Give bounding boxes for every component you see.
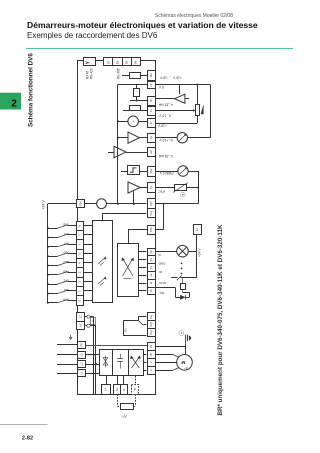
- svg-text:EXT: EXT: [150, 201, 153, 206]
- svg-text:O2: O2: [149, 73, 153, 77]
- svg-text:FWD: FWD: [63, 269, 69, 273]
- contact stud 13: [87, 315, 90, 318]
- svg-text:BR* uniquement pour DV6-340-07: BR* uniquement pour DV6-340-075, DV6-340…: [218, 224, 224, 416]
- terminal A1 analog output 1: [148, 134, 156, 143]
- terminal I2 current setpoint input: [148, 97, 156, 106]
- terminal K +10V potentiometer supply: [148, 119, 156, 128]
- svg-text:L+: L+: [104, 387, 108, 390]
- resistor R1 reference output: [122, 75, 129, 77]
- diode V1: [180, 295, 185, 300]
- svg-text:+10 V … -10 V: +10 V … -10 V: [159, 75, 182, 79]
- control logic block: [118, 244, 139, 297]
- svg-text:DF1: DF1: [63, 288, 69, 292]
- svg-text:03: 03: [125, 61, 129, 65]
- thyristor symbol: [105, 356, 107, 368]
- switch and terminal input JOG: [77, 250, 84, 259]
- phase control symbol: [123, 259, 133, 276]
- switch and terminal input FWD: [77, 268, 84, 278]
- connector mark on PE: [179, 331, 184, 336]
- wire pot wiper: [155, 110, 193, 112]
- terminal PLC 24V: [148, 209, 156, 218]
- switch and terminal input DF2: [77, 278, 84, 287]
- terminal B dashed: [135, 376, 137, 384]
- wire to signal lamp: [155, 251, 176, 253]
- svg-text:01: 01: [106, 61, 110, 65]
- svg-text:0...+10 V: 0...+10 V: [159, 138, 173, 142]
- meter M1: [155, 137, 177, 139]
- terminal X2 24V ext: [148, 199, 156, 209]
- potentiometer R4: [197, 85, 199, 105]
- svg-text:PW: PW: [149, 168, 153, 173]
- meter M2: [155, 171, 178, 173]
- terminal L3: [78, 352, 86, 359]
- svg-text:Th: Th: [149, 185, 153, 189]
- relay output terminal 13: [77, 313, 85, 322]
- svg-text:RST: RST: [63, 232, 69, 236]
- amplifier U2 current output: [108, 152, 114, 154]
- svg-text:4...25 mA: 4...25 mA: [158, 102, 173, 106]
- relay changeover contact K1: [138, 316, 146, 318]
- svg-text:A1: A1: [149, 136, 153, 140]
- wires mains to power block: [86, 354, 100, 356]
- svg-text:Dr: Dr: [159, 270, 162, 274]
- svg-text:Schéma fonctionnel DV6: Schéma fonctionnel DV6: [28, 53, 35, 127]
- svg-text:0 V: 0 V: [158, 85, 164, 89]
- motor M 3-phase: [177, 355, 193, 371]
- switch and terminal input REV: [77, 259, 84, 268]
- svg-text:G: G: [78, 299, 82, 301]
- svg-text:REV: REV: [63, 260, 69, 264]
- svg-text:2-82: 2-82: [22, 436, 33, 442]
- svg-text:M: M: [181, 360, 185, 365]
- svg-text:24G: 24G: [150, 227, 153, 232]
- footer rule: [0, 424, 48, 426]
- wire X2 to meters return: [155, 203, 198, 205]
- resistor R2 vertical: [136, 85, 138, 89]
- wire U to motor: [155, 370, 173, 372]
- svg-text:PE: PE: [79, 343, 83, 347]
- svg-text:4...25 mA: 4...25 mA: [158, 154, 173, 158]
- terminal 0V: [148, 82, 156, 89]
- input isolation block: [93, 221, 113, 303]
- terminal R-: [123, 376, 125, 384]
- svg-text:PE: PE: [150, 344, 153, 348]
- main device enclosure DV6: [78, 61, 156, 395]
- svg-text:+24 V: +24 V: [41, 200, 45, 210]
- svg-text:R+: R+: [115, 387, 119, 391]
- terminal PE mains: [78, 342, 86, 349]
- power block divider 2: [128, 350, 130, 376]
- svg-text:I1: I1: [149, 109, 153, 112]
- supply circle: [84, 203, 96, 205]
- svg-text:V: V: [149, 361, 153, 363]
- svg-text:R-: R-: [122, 388, 126, 391]
- power block divider 1: [112, 350, 114, 376]
- 24V source box: [194, 225, 202, 235]
- terminal PWM output: [148, 167, 156, 177]
- wire PLC to logic: [102, 213, 146, 215]
- connector mark on thermistor: [181, 192, 186, 197]
- resistor R3: [123, 110, 129, 112]
- switch and terminal input RFR: [77, 296, 84, 306]
- thermistor RT1: [155, 187, 175, 189]
- svg-text:Schémas électriques Moeller 02: Schémas électriques Moeller 02/08: [155, 13, 233, 19]
- svg-text:Démarreurs-moteur électronique: Démarreurs-moteur électroniques et varia…: [27, 20, 258, 30]
- connector X1 strip: [104, 58, 141, 66]
- terminal W: [148, 351, 156, 359]
- switch and terminal input RST: [77, 231, 84, 240]
- opto symbol 1: [98, 258, 105, 264]
- svg-text:EXT: EXT: [63, 241, 69, 245]
- braking resistor BR* dashed wiring: [117, 394, 119, 406]
- inverter symbol: [132, 357, 140, 368]
- svg-text:0V: 0V: [150, 83, 153, 86]
- PE through wire: [86, 345, 148, 347]
- switch and terminal input EXT: [77, 240, 84, 250]
- terminal PE motor side: [148, 343, 156, 351]
- svg-text:GND: GND: [63, 223, 69, 227]
- svg-text:+: +: [132, 119, 134, 123]
- relay contact S10: [171, 277, 177, 279]
- chapter tab 2: [0, 93, 21, 110]
- terminal I1 voltage setpoint input: [148, 107, 156, 116]
- +24V drop wire: [196, 251, 198, 278]
- svg-text:Exemples de raccordement des D: Exemples de raccordement des DV6: [27, 31, 158, 40]
- wires logic to status terminals: [138, 251, 146, 253]
- terminal L+: [106, 376, 108, 384]
- svg-text:B: B: [133, 388, 137, 390]
- terminal V: [148, 359, 156, 367]
- digital status terminals 15..10: [148, 249, 156, 256]
- power block enclosure: [100, 350, 144, 376]
- meter M1 return wire: [210, 85, 212, 138]
- stubs to motor terminals: [143, 354, 146, 356]
- svg-text:K12: K12: [151, 330, 153, 335]
- wire 24G to logic: [128, 229, 147, 231]
- terminal L2: [78, 361, 86, 368]
- keypad connector Y: [84, 58, 96, 66]
- internal 0V rail: [118, 84, 147, 86]
- switch and terminal input DF1: [77, 287, 84, 296]
- svg-text:2: 2: [11, 98, 17, 109]
- svg-text:th: th: [158, 253, 161, 257]
- relay terminal K12: [148, 329, 156, 337]
- signal lamp H1: [177, 245, 189, 257]
- svg-text:+24 V: +24 V: [198, 247, 202, 257]
- DC link capacitor C1: [120, 354, 122, 359]
- svg-text:K14: K14: [151, 322, 153, 327]
- earth electrode PE: [185, 334, 187, 343]
- contact designator box: [91, 318, 96, 325]
- svg-text:A2: A2: [149, 150, 153, 154]
- internal bus: [117, 85, 119, 205]
- svg-text:RUN: RUN: [159, 281, 166, 285]
- ellipsis further outputs: [181, 263, 183, 265]
- wire X2 drop: [163, 204, 165, 230]
- svg-text:K: K: [149, 122, 153, 124]
- terminal A2 analog output 2: [148, 148, 156, 157]
- amplifier U1: [118, 137, 128, 139]
- svg-text:3~: 3~: [184, 366, 188, 370]
- PWM shaper block: [128, 166, 140, 175]
- svg-text:04: 04: [134, 61, 138, 65]
- earth mark on PE line: [70, 335, 72, 338]
- terminal 24G: [148, 226, 156, 235]
- svg-text:GND: GND: [158, 262, 166, 266]
- wire PE to earth: [155, 346, 186, 348]
- svg-text:02: 02: [115, 61, 119, 65]
- relay terminal K11: [148, 313, 156, 321]
- svg-text:JOG: JOG: [63, 251, 69, 255]
- wire +24V feed: [48, 203, 77, 205]
- braking resistor BR*: [121, 404, 134, 410]
- wire W to motor: [155, 354, 173, 356]
- svg-text:DF2: DF2: [63, 279, 69, 283]
- svg-text:RS 485: RS 485: [117, 68, 121, 79]
- relay terminal K14: [148, 321, 156, 329]
- +24V rail: [47, 204, 49, 303]
- op-amp U4 external setpoint converter: [155, 98, 175, 100]
- meter M2 return wire: [188, 171, 198, 173]
- wire V to motor: [155, 362, 177, 364]
- opto symbol 2: [98, 278, 105, 284]
- svg-text:K1: K1: [124, 328, 128, 332]
- svg-text:I2: I2: [149, 99, 153, 102]
- terminal Th thermistor: [148, 183, 156, 193]
- summing circle: [118, 121, 128, 123]
- bypass feed wires down: [90, 316, 94, 318]
- svg-text:RS 422: RS 422: [90, 68, 94, 79]
- svg-text:PLC: PLC: [150, 210, 153, 215]
- svg-text:0...10 V: 0...10 V: [159, 114, 171, 118]
- svg-text:P24: P24: [80, 201, 83, 206]
- svg-text:TA1: TA1: [159, 291, 165, 295]
- relay output terminal 14: [77, 322, 85, 330]
- relay contact terminals wires: [84, 316, 87, 318]
- wire PE to motor: [185, 346, 187, 355]
- wire TA1 branch: [155, 287, 175, 289]
- contact stud 14: [87, 324, 90, 327]
- terminal AO2 +10V reference: [148, 71, 156, 81]
- svg-text:24: 24: [195, 228, 199, 232]
- svg-text:U: U: [149, 369, 153, 371]
- terminal U: [148, 367, 156, 375]
- switch and terminal input GND: [77, 222, 84, 231]
- terminal R+: [117, 376, 119, 384]
- amplifier U3 thermistor input: [128, 182, 140, 193]
- resistor R5: [181, 284, 186, 290]
- terminal L1: [78, 370, 86, 377]
- svg-text:R*: R*: [121, 413, 127, 419]
- terminal P24: [77, 200, 85, 208]
- svg-text:PTC: PTC: [158, 189, 165, 193]
- green rule under title: [26, 48, 293, 50]
- svg-text:RFR: RFR: [63, 297, 69, 301]
- wire node I2: [130, 100, 147, 102]
